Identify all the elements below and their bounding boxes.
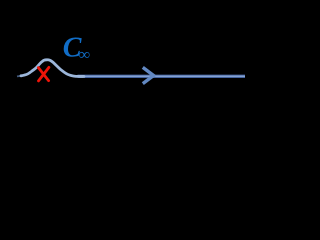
wire: contour bump faint left tail — [17, 75, 23, 78]
arrowhead on real-axis line — [143, 67, 154, 83]
wire: real-axis line (outer) — [78, 75, 246, 78]
wire: real-axis line (core highlight) — [78, 75, 246, 77]
wire: contour bump over pole — [21, 60, 84, 77]
pole marker X stroke 2 — [39, 67, 49, 81]
pole marker X stroke 1 — [38, 68, 48, 81]
svg-text:∞: ∞ — [79, 47, 90, 64]
